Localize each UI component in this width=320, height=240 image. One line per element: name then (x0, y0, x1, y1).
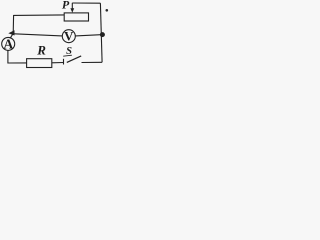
wire link to ammeter (10, 33, 13, 38)
current arrow (8, 30, 14, 35)
wire left rail (12, 15, 14, 34)
svg-text:P: P (62, 0, 70, 11)
wire bottom rail right (82, 61, 103, 63)
svg-text:R: R (36, 43, 46, 58)
ammeter A (2, 37, 15, 50)
svg-text:V: V (64, 29, 74, 43)
svg-text:A: A (3, 36, 13, 51)
svg-text:S: S (66, 46, 72, 57)
rheostat P box (64, 13, 88, 21)
wire voltmeter left (14, 34, 62, 36)
voltmeter V (62, 30, 75, 43)
wire top slider rail (72, 2, 100, 4)
switch S (63, 59, 65, 65)
wire R to switch (52, 62, 64, 64)
stray dot (106, 9, 109, 12)
wire right rail (100, 3, 102, 62)
resistor R (27, 59, 52, 68)
rheostat slider arrow (71, 3, 73, 9)
wire voltmeter right (75, 35, 101, 36)
junction dot (100, 32, 105, 37)
wire top rail (13, 14, 64, 17)
wire ammeter bottom (8, 50, 27, 63)
